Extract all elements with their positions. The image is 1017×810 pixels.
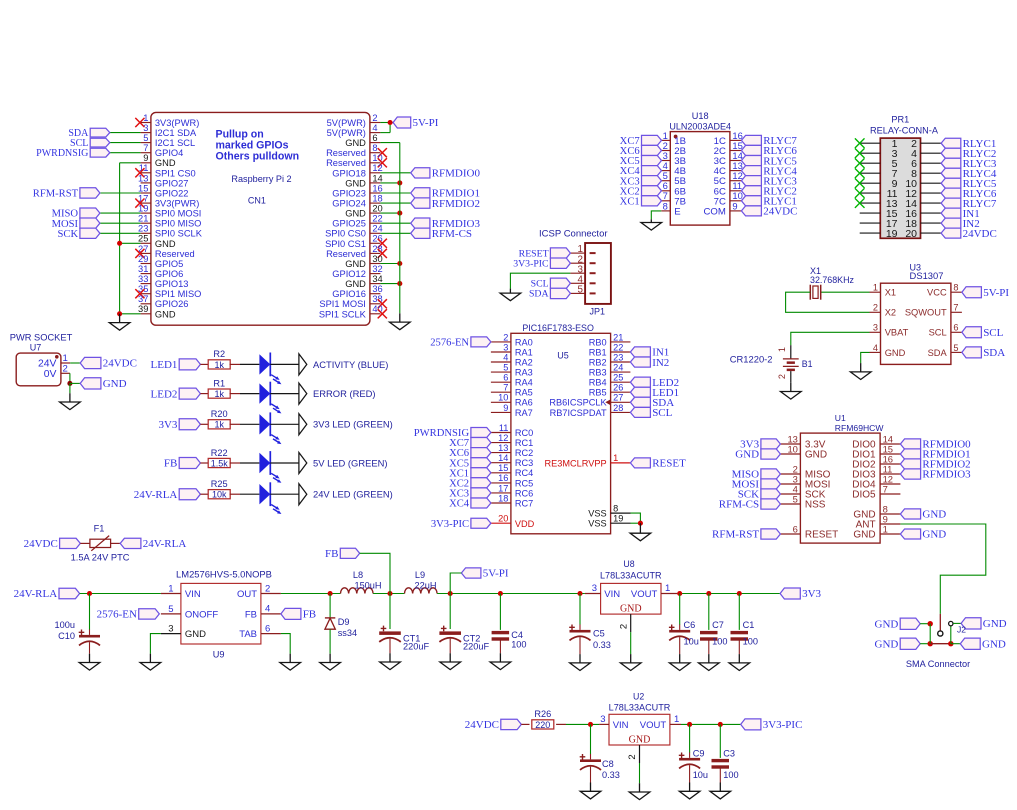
wire [270, 393, 299, 395]
pin 37 GPIO26 [138, 294, 188, 309]
U5 pin 1 RE3MCLRVPP [544, 453, 630, 468]
resistor R25 [208, 479, 230, 500]
pin 12 RC1 [491, 433, 533, 448]
resistor R26 [532, 709, 554, 730]
U9 pin 1 VIN [161, 584, 201, 601]
svg-text:32: 32 [372, 264, 382, 274]
svg-text:VIN: VIN [604, 589, 620, 600]
svg-text:1: 1 [777, 347, 787, 352]
U9 pin 4 FB [245, 604, 281, 621]
junction [387, 591, 392, 596]
wire [380, 232, 410, 234]
svg-text:1k: 1k [214, 389, 224, 399]
svg-text:GPIO6: GPIO6 [155, 269, 183, 279]
junction [928, 641, 933, 646]
svg-text:6: 6 [265, 623, 270, 634]
ground [850, 363, 871, 379]
svg-text:RA6: RA6 [515, 398, 533, 408]
svg-text:12: 12 [498, 433, 508, 443]
pin 11 6C [714, 180, 743, 197]
pin 9 ANT [856, 513, 901, 530]
svg-text:RB3: RB3 [589, 368, 607, 378]
pin 22 RB1 [589, 342, 631, 357]
svg-text:30: 30 [372, 254, 382, 264]
hierarchical label 24VDC [24, 538, 81, 550]
svg-text:C8: C8 [602, 759, 614, 769]
hierarchical label GND [900, 529, 946, 541]
hierarchical label 5V-PI [393, 117, 439, 129]
pin 17 RC6 [491, 483, 533, 498]
svg-text:5: 5 [793, 493, 798, 504]
hierarchical label LED2 [630, 377, 679, 389]
hierarchical label XC7 [449, 438, 491, 450]
svg-text:2: 2 [627, 754, 638, 759]
hierarchical label IN1 [941, 208, 980, 220]
svg-text:PIC16F1783-ESO: PIC16F1783-ESO [522, 323, 594, 333]
svg-text:12: 12 [372, 163, 382, 173]
hierarchical label SDA [68, 128, 109, 139]
IC U5 PIC16F1783-ESO body [511, 333, 611, 534]
svg-text:GND: GND [345, 178, 366, 188]
pin 24 RB3 [589, 363, 631, 378]
pin 14 DIO0 [852, 433, 900, 450]
svg-text:5: 5 [143, 133, 148, 143]
svg-text:GPIO24: GPIO24 [332, 199, 366, 209]
hierarchical label RLYC4 [741, 165, 797, 177]
svg-text:24V-RLA: 24V-RLA [134, 489, 178, 501]
svg-text:10u: 10u [693, 770, 708, 780]
hierarchical label PWRDNSIG [36, 148, 110, 159]
pin 5 RA3 [491, 363, 533, 378]
svg-text:24: 24 [613, 363, 623, 373]
svg-text:2576-EN: 2576-EN [430, 338, 469, 349]
ground [60, 393, 81, 409]
svg-text:VIN: VIN [185, 589, 201, 600]
svg-text:8: 8 [613, 504, 618, 514]
svg-text:9: 9 [503, 403, 508, 413]
resistor R20 [208, 409, 230, 430]
svg-text:RC5: RC5 [515, 478, 533, 488]
hierarchical label 3V3 [780, 588, 821, 600]
svg-text:9: 9 [143, 153, 148, 163]
pin 1 1B [661, 130, 686, 147]
pin 4 5V(PWR) [327, 123, 381, 138]
pin 20 GND [345, 204, 383, 219]
svg-text:1: 1 [665, 583, 670, 594]
svg-text:26: 26 [613, 383, 623, 393]
svg-text:Reserved: Reserved [326, 158, 366, 168]
no-connect PR1 pin 5 [855, 158, 865, 168]
svg-text:GND: GND [345, 259, 366, 269]
hierarchical label RFMDIO3 [900, 469, 971, 481]
pin 18 RC7 [491, 493, 533, 508]
svg-text:CR1220-2: CR1220-2 [730, 354, 773, 365]
svg-text:3V3(PWR): 3V3(PWR) [155, 118, 199, 128]
svg-text:3V3-PIC: 3V3-PIC [763, 719, 803, 731]
no-connect CN1 pin 40 [378, 309, 387, 318]
svg-text:32.768KHz: 32.768KHz [810, 275, 854, 285]
svg-text:RA7: RA7 [515, 408, 533, 418]
svg-text:8: 8 [663, 200, 668, 211]
svg-text:24VDC: 24VDC [465, 719, 499, 731]
svg-text:SPI0 SCLK: SPI0 SCLK [155, 229, 203, 239]
pin 1 X1 [870, 283, 897, 298]
hierarchical label XC3 [620, 176, 662, 188]
wire [380, 192, 410, 194]
svg-text:1: 1 [873, 283, 878, 293]
hierarchical label 24VDC [741, 206, 797, 218]
svg-text:SQWOUT: SQWOUT [905, 308, 947, 318]
pin 5 NSS [780, 493, 825, 510]
svg-text:9: 9 [732, 200, 737, 211]
pin 3 MOSI [780, 473, 830, 490]
off-sheet arrow ACTIVITY (BLUE) [299, 354, 307, 375]
svg-text:5V-PI: 5V-PI [483, 568, 509, 580]
off-sheet arrow 3V3 LED (GREEN) [299, 414, 307, 435]
JP1 pin 1 [570, 244, 595, 255]
wire [681, 723, 741, 725]
svg-text:21: 21 [138, 214, 148, 224]
svg-text:C1: C1 [743, 620, 755, 630]
hierarchical label 3V3-PIC [431, 518, 491, 530]
svg-text:36: 36 [372, 284, 382, 294]
hierarchical label XC3 [449, 488, 491, 500]
svg-text:E: E [674, 206, 680, 217]
svg-text:1.5k: 1.5k [211, 458, 229, 468]
hierarchical label RFMDIO0 [900, 439, 971, 451]
hierarchical label RFM-CS [719, 499, 781, 511]
svg-text:RB7ICSPDAT: RB7ICSPDAT [550, 408, 607, 418]
svg-text:R2: R2 [213, 349, 225, 359]
pin 16 1C [714, 130, 743, 147]
PR1 pin 3 [860, 148, 898, 160]
pin 4 GND [870, 343, 906, 358]
wire U3 GND [861, 352, 870, 363]
pin 18 GPIO24 [332, 194, 382, 209]
junction [928, 621, 933, 626]
svg-text:24VDC: 24VDC [24, 538, 58, 550]
svg-text:3: 3 [168, 624, 173, 635]
svg-text:L8: L8 [353, 570, 363, 580]
pin 14 3C [714, 150, 743, 167]
svg-text:RA4: RA4 [515, 378, 533, 388]
wire [556, 723, 566, 725]
svg-text:24VDC: 24VDC [763, 206, 797, 218]
svg-text:Reserved: Reserved [326, 148, 366, 158]
svg-text:DS1307: DS1307 [910, 270, 944, 281]
svg-text:GND: GND [345, 209, 366, 219]
svg-text:I2C1 SCL: I2C1 SCL [155, 138, 195, 148]
wire J2 pin [930, 643, 951, 645]
pin 26 SPI0 CS1 [325, 234, 383, 249]
svg-text:U8: U8 [623, 559, 634, 569]
svg-text:RB0: RB0 [589, 337, 607, 347]
svg-text:FB: FB [164, 458, 177, 470]
hierarchical label XC5 [620, 156, 662, 168]
wire [100, 212, 141, 214]
hierarchical label XC4 [449, 498, 491, 510]
U5 pin 8 VSS [588, 504, 630, 519]
pin 15 DIO1 [852, 443, 900, 460]
capacitor C1 [731, 594, 758, 655]
svg-text:1k: 1k [214, 420, 224, 430]
junction [397, 261, 402, 266]
wire rail OUT [281, 593, 341, 595]
off-sheet arrow 24V LED (GREEN) [299, 484, 307, 505]
svg-text:SPI1 MISO: SPI1 MISO [155, 289, 202, 299]
CN1 note text [216, 128, 300, 162]
PR1 pin 11 [860, 188, 898, 200]
capacitor C5 [569, 594, 611, 655]
hierarchical label RFMDIO1 [900, 449, 970, 461]
junction [718, 722, 723, 727]
hierarchical label 3V3-PIC [741, 719, 803, 731]
svg-text:ERROR (RED): ERROR (RED) [313, 388, 376, 399]
svg-text:RELAY-CONN-A: RELAY-CONN-A [870, 125, 939, 135]
PR1 pin 5 [860, 158, 898, 170]
no-connect CN1 pin 26 [378, 239, 387, 248]
svg-text:SDA: SDA [983, 347, 1005, 359]
pin 7 DIO5 [852, 483, 900, 500]
svg-text:22: 22 [613, 342, 623, 352]
PR1 body [880, 138, 920, 238]
svg-text:8: 8 [372, 143, 377, 153]
hierarchical label MOSI [732, 479, 781, 491]
wire [380, 212, 399, 214]
pin 8 Reserved [326, 143, 380, 158]
svg-text:25: 25 [613, 373, 623, 383]
wire [69, 383, 71, 393]
wire [380, 283, 399, 285]
wire main rail [80, 593, 161, 595]
svg-text:18: 18 [372, 194, 382, 204]
svg-text:6: 6 [372, 133, 377, 143]
PR1 pin 19 [860, 228, 898, 240]
wire [380, 222, 410, 224]
hierarchical label SCK [57, 228, 99, 240]
pin 1 3V3(PWR) [141, 113, 200, 128]
svg-text:19: 19 [613, 514, 623, 524]
svg-text:1: 1 [168, 584, 173, 595]
pin 2 X2 [870, 303, 897, 318]
wire VOUT rail [677, 593, 780, 595]
wire crystal loop [786, 292, 870, 312]
svg-text:C9: C9 [693, 748, 705, 758]
svg-text:RC4: RC4 [515, 468, 533, 478]
hierarchical label GND [961, 618, 1007, 630]
hierarchical label SCK [738, 489, 781, 501]
hierarchical label GND [960, 638, 1006, 650]
fuse F1 [71, 524, 130, 563]
svg-text:Reserved: Reserved [326, 249, 366, 259]
wire [110, 132, 141, 134]
wire [929, 624, 931, 644]
hierarchical label FB [164, 458, 200, 470]
capacitor C6 [669, 594, 699, 655]
pin 12 5C [714, 170, 743, 187]
junction [638, 521, 643, 526]
svg-text:20: 20 [372, 204, 382, 214]
svg-text:1.5A 24V PTC: 1.5A 24V PTC [71, 553, 130, 563]
hierarchical label RLYC3 [741, 175, 797, 187]
svg-text:150uH: 150uH [354, 580, 381, 590]
svg-text:SPI1 SCLK: SPI1 SCLK [319, 309, 367, 319]
ground [781, 383, 802, 399]
hierarchical label LED1 [151, 359, 201, 371]
hierarchical label GND [900, 509, 946, 521]
pin 15 GPIO22 [138, 183, 188, 198]
svg-text:RFMDIO0: RFMDIO0 [432, 168, 481, 180]
svg-text:RFMDIO2: RFMDIO2 [432, 198, 480, 210]
pin 3 3B [661, 150, 686, 167]
svg-text:Raspberry Pi 2: Raspberry Pi 2 [231, 174, 291, 184]
hierarchical label SDA [630, 397, 674, 409]
svg-text:RA5: RA5 [515, 388, 533, 398]
svg-text:GND: GND [345, 138, 366, 148]
svg-text:8: 8 [953, 283, 958, 293]
svg-text:SCK: SCK [57, 229, 78, 240]
svg-text:RC7: RC7 [515, 498, 533, 508]
wire [920, 623, 930, 625]
svg-text:3: 3 [143, 123, 148, 133]
svg-text:3: 3 [873, 323, 878, 333]
hierarchical label RESET [519, 248, 571, 260]
svg-text:LED1: LED1 [151, 359, 178, 371]
svg-text:RB1: RB1 [589, 347, 607, 357]
wire [240, 462, 259, 464]
ground [669, 654, 690, 670]
svg-text:100u: 100u [55, 620, 75, 630]
svg-text:RC1: RC1 [515, 438, 533, 448]
wire [200, 363, 209, 365]
wire 5V [380, 122, 393, 124]
svg-text:GPIO27: GPIO27 [155, 178, 189, 188]
hierarchical label SCL [962, 327, 1004, 339]
svg-text:GPIO26: GPIO26 [155, 299, 189, 309]
wire [200, 462, 209, 464]
svg-text:U9: U9 [213, 650, 225, 660]
svg-text:SPI0 MISO: SPI0 MISO [155, 219, 202, 229]
hierarchical label 3V3-PIC [513, 258, 570, 270]
svg-text:SDA: SDA [928, 348, 948, 358]
svg-text:GPIO4: GPIO4 [155, 148, 183, 158]
U5 pin 20 VDD [491, 513, 535, 528]
pin 2 2B [661, 140, 686, 157]
capacitor C8 [580, 724, 620, 782]
hierarchical label RFM-RST [33, 188, 100, 200]
svg-text:22uH: 22uH [415, 580, 437, 590]
wire [110, 142, 141, 144]
IC U1 RFM69HCW body [800, 433, 880, 543]
svg-text:4: 4 [265, 604, 270, 615]
JP1 pin 3 [570, 264, 595, 275]
svg-text:RA2: RA2 [515, 357, 533, 367]
pin 11 RC0 [491, 423, 533, 438]
resistor R2 [208, 349, 230, 370]
ground [641, 219, 662, 230]
SMA connector J2 [938, 614, 943, 636]
off-sheet arrow ERROR (RED) [299, 383, 307, 404]
svg-text:SCL: SCL [983, 327, 1003, 339]
svg-text:COM: COM [704, 206, 726, 217]
wire [240, 423, 259, 425]
hierarchical label 24V-RLA [120, 538, 186, 550]
hierarchical label SCL [70, 138, 110, 149]
svg-text:22: 22 [372, 214, 382, 224]
pin 6 RA4 [491, 373, 533, 388]
hierarchical label RLYC4 [941, 168, 997, 180]
crystal X1 [810, 266, 854, 300]
hierarchical label RLYC3 [941, 158, 997, 170]
svg-text:GPIO16: GPIO16 [332, 289, 366, 299]
svg-text:C5: C5 [593, 629, 605, 639]
PR1 pin 4 [911, 148, 941, 160]
svg-text:RFM-RST: RFM-RST [712, 529, 759, 541]
svg-text:FB: FB [303, 609, 316, 621]
pin 4 RA2 [491, 352, 533, 367]
svg-text:1: 1 [613, 453, 618, 463]
svg-text:VSS: VSS [588, 509, 606, 519]
PR1 pin 17 [860, 218, 898, 230]
connector CN1 Raspberry Pi 2 body [151, 112, 370, 325]
capacitor C9 [679, 724, 708, 782]
junction [737, 591, 742, 596]
hierarchical label XC1 [449, 468, 491, 480]
hierarchical label MISO [732, 469, 781, 481]
pin 23 SPI0 SCLK [138, 224, 203, 239]
pin 2 5V(PWR) [327, 113, 381, 128]
no-connect CN1 pin 17 [135, 199, 144, 208]
svg-text:VSS: VSS [588, 519, 606, 529]
U2 pin 3 VIN [599, 714, 629, 731]
svg-text:VDD: VDD [515, 519, 535, 529]
wire [110, 152, 141, 154]
hierarchical label RFMDIO2 [900, 459, 970, 471]
hierarchical label PWRDNSIG [414, 428, 491, 440]
wire [69, 373, 71, 383]
svg-text:16: 16 [372, 183, 382, 193]
pin 27 RB6ICSPCLK [549, 393, 630, 408]
hierarchical label RFMDIO1 [411, 188, 480, 200]
capacitor C7 [700, 594, 727, 655]
svg-text:GPIO5: GPIO5 [155, 259, 183, 269]
svg-text:5V(PWR): 5V(PWR) [327, 128, 366, 138]
svg-text:U18: U18 [692, 111, 709, 121]
svg-text:PWR SOCKET: PWR SOCKET [10, 332, 73, 342]
hierarchical label RLYC1 [741, 196, 797, 208]
svg-text:3: 3 [600, 714, 605, 725]
wire FB [360, 553, 390, 593]
hierarchical label RLYC2 [741, 186, 797, 198]
pin 32 GPIO12 [332, 264, 382, 279]
svg-text:SPI0 MOSI: SPI0 MOSI [155, 209, 202, 219]
wire VSS to ground [631, 513, 641, 523]
hierarchical label XC5 [449, 458, 491, 470]
ground [490, 653, 511, 669]
wire JP1 pin3 to ground [510, 273, 570, 288]
pin 10 Reserved [326, 153, 383, 168]
capacitor C4 [492, 594, 527, 654]
svg-text:GPIO22: GPIO22 [155, 188, 189, 198]
pin 16 GPIO23 [332, 183, 382, 198]
hierarchical label SDA [962, 347, 1005, 359]
svg-text:24V LED (GREEN): 24V LED (GREEN) [313, 489, 393, 500]
ground [630, 523, 651, 541]
svg-text:3V3-PIC: 3V3-PIC [431, 519, 469, 530]
wire [951, 643, 961, 645]
hierarchical label 3V3 [158, 419, 200, 431]
wire [270, 363, 299, 365]
